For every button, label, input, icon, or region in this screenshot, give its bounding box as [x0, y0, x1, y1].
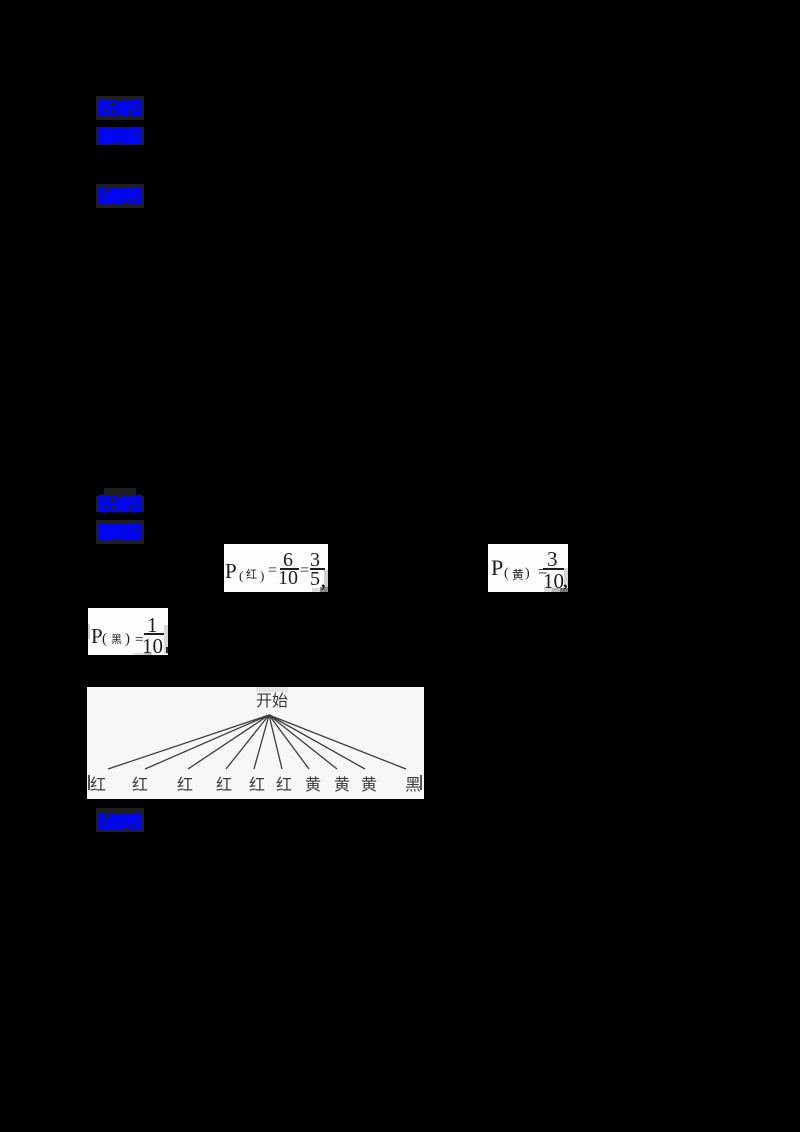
tag block 1 [96, 96, 144, 120]
formula P(red)=6/10=3/5 [224, 544, 328, 592]
formula P(yellow)=3/10 [488, 544, 568, 592]
svg-text:红: 红 [132, 776, 148, 794]
tag block 4 [104, 488, 136, 496]
svg-text:红: 红 [177, 776, 193, 794]
lines [108, 715, 406, 769]
tag block 2 [96, 127, 144, 145]
svg-text:红: 红 [276, 776, 292, 794]
svg-text:黑: 黑 [405, 777, 421, 794]
svg-text:开始: 开始 [256, 692, 288, 710]
tag block 6 [96, 808, 144, 832]
svg-text:黄: 黄 [334, 776, 350, 794]
svg-text:红: 红 [216, 776, 232, 794]
svg-text:黄: 黄 [361, 776, 377, 794]
svg-text:红: 红 [249, 776, 265, 794]
svg-text:红: 红 [90, 776, 106, 794]
leaf labels [90, 776, 421, 794]
tag block 3 [96, 184, 144, 208]
formula P(black)=1/10 [88, 608, 168, 655]
smudge above start [256, 687, 288, 692]
svg-text:黄: 黄 [305, 776, 321, 794]
caret artifact left [88, 775, 90, 790]
tag block 5 [96, 520, 144, 544]
caret artifact right [420, 775, 422, 790]
tree diagram [87, 687, 424, 799]
